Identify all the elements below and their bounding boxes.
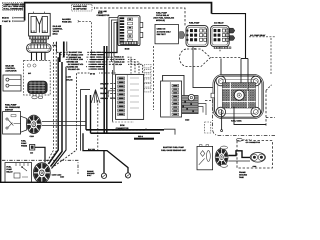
ECM connector B — [116, 74, 144, 119]
wire dashed vertical 153 — [153, 46, 155, 110]
label electric fuel pump sending unit — [161, 146, 187, 152]
svg-text:BLK/WHT: BLK/WHT — [100, 92, 109, 95]
fusible link stub N3 — [94, 7, 107, 13]
svg-text:C ANT B: C ANT B — [2, 20, 11, 23]
tank internal wires — [221, 110, 223, 130]
svg-text:SEE TEXT: SEE TEXT — [157, 33, 167, 36]
svg-text:RELAY: RELAY — [6, 170, 13, 173]
wire fan grommet — [91, 90, 100, 104]
label ECM CONNECTOR (B) — [112, 121, 134, 123]
label + dashed wire far right — [249, 34, 275, 75]
wire main power bus (top) — [25, 3, 212, 21]
svg-text:IN ALL HARNESSES: IN ALL HARNESSES — [3, 7, 23, 10]
scan border bottom — [0, 182, 122, 183]
scan border left — [0, 25, 1, 183]
label engine ground bolt — [87, 170, 95, 177]
svg-text:CONNECTOR: CONNECTOR — [97, 14, 110, 17]
dashed line lower center — [112, 127, 146, 130]
oval connector in dashed box — [250, 153, 265, 163]
wire pennant to pump boss — [220, 59, 222, 77]
wire lower thin — [228, 160, 250, 162]
label IDLE AIR CONTROL VALVE — [53, 25, 64, 36]
relay K1 — [186, 26, 208, 51]
svg-text:C38: C38 — [52, 44, 55, 47]
svg-text:FUS LINK: FUS LINK — [99, 10, 108, 13]
IAC valve connector hatch bar — [29, 36, 48, 43]
svg-text:10 AMP RATED: 10 AMP RATED — [73, 7, 87, 10]
svg-text:RED 2: RED 2 — [138, 135, 143, 138]
ground G1 — [101, 173, 106, 178]
svg-text:ECM: ECM — [120, 124, 125, 127]
wire thick steps — [63, 42, 65, 58]
thick jog to ECM pin — [104, 22, 117, 53]
fuel pump assembly (scalloped) — [211, 75, 264, 119]
small dashed rect left of tank — [205, 122, 211, 133]
wires IAC to actuator box — [32, 52, 46, 60]
actuator terminal box B2 — [3, 75, 21, 91]
svg-text:MODULE): MODULE) — [156, 19, 165, 22]
svg-text:C420: C420 — [185, 118, 189, 121]
thick bar segment — [134, 138, 154, 140]
svg-text:USED ON: USED ON — [157, 28, 166, 31]
wires from ECM-A left edge — [109, 18, 118, 122]
note box N2 (dashed, gauges fuse feed) — [72, 4, 93, 11]
wire rows cluster A (staircase) — [57, 42, 112, 70]
IAC actuator motor blob — [28, 81, 48, 94]
svg-text:PPL/WHT 470: PPL/WHT 470 — [68, 68, 80, 71]
svg-text:C210: C210 — [30, 135, 34, 138]
prime wire — [35, 147, 45, 162]
vertical harness bundle left-center — [47, 42, 57, 164]
wires from switch connector — [42, 121, 86, 123]
label fuel pump oil pressure switch — [5, 103, 21, 111]
svg-text:FUEL TANK: FUEL TANK — [231, 120, 242, 123]
grid connector block — [178, 94, 206, 121]
wire sender to C oval (thick) — [228, 151, 250, 158]
svg-text:SWITCH: SWITCH — [5, 108, 13, 111]
fuel tank dashed outline — [205, 85, 275, 136]
svg-text:C-100: C-100 — [66, 76, 71, 79]
svg-text:FUSE 10A: FUSE 10A — [62, 21, 72, 24]
svg-text:ELECTRIC FUEL PUMP: ELECTRIC FUEL PUMP — [163, 146, 185, 149]
relay round connector — [33, 163, 61, 183]
node stub ECM B — [2, 17, 25, 20]
svg-text:ACTUATOR: ACTUATOR — [5, 70, 17, 73]
wire thick bundle down to relay connector — [49, 57, 59, 164]
note box N1 (top-left dashed) — [2, 3, 25, 11]
nested dashed wires into ECM-B — [112, 57, 143, 73]
svg-text:C30: C30 — [30, 152, 33, 155]
wedge connectors right of K2 — [230, 28, 235, 33]
wire bus companion — [106, 46, 108, 133]
oil switch round connector — [27, 115, 41, 138]
svg-text:FUEL GAGE SENDING UNIT: FUEL GAGE SENDING UNIT — [161, 149, 187, 152]
label ECM CONNECTOR (top) — [97, 11, 110, 17]
fuel pump prime — [21, 140, 35, 155]
ECM connector A (top) — [118, 16, 143, 51]
label pressure ground tank — [239, 165, 256, 179]
dashed capsule loops — [180, 49, 241, 67]
IAC valve motor body — [29, 12, 51, 36]
svg-text:PRIME: PRIME — [21, 144, 28, 147]
wedge connector — [180, 32, 185, 39]
wedge to switch connector — [21, 116, 27, 132]
dashed pin stack — [144, 65, 151, 92]
svg-text:DT 88: DT 88 — [90, 73, 95, 76]
ground G2 — [125, 173, 130, 178]
svg-text:C/O CONNECTOR: C/O CONNECTOR — [246, 141, 261, 144]
gauges fuse stub — [62, 18, 92, 60]
svg-text:PPL 420: PPL 420 — [115, 63, 122, 66]
svg-text:C150: C150 — [60, 176, 64, 179]
relay K2 — [211, 26, 231, 49]
dashed feed line to relays — [96, 8, 185, 26]
wire corner to ground feed — [81, 90, 91, 151]
sender round connector — [215, 146, 228, 167]
wire rows cluster B — [53, 73, 116, 167]
wire S-route to grid connector — [163, 75, 184, 95]
connector bracket right edge — [108, 91, 115, 98]
svg-text:TANK: TANK — [239, 176, 245, 179]
oil pressure switch box — [3, 112, 21, 134]
svg-text:FUEL PUMP: FUEL PUMP — [189, 21, 200, 24]
svg-text:SPLICE: SPLICE — [66, 79, 73, 82]
wire label oval GRY — [237, 138, 243, 141]
connector box (pins right) — [161, 81, 182, 117]
label idle air control actuator — [5, 65, 17, 73]
svg-text:BLK 150: BLK 150 — [88, 148, 95, 151]
wire labels cluster A — [66, 51, 88, 71]
sending unit box — [197, 145, 213, 170]
wire relay K1 down to pump — [193, 47, 214, 88]
IAC 4-pin connector body — [27, 44, 56, 53]
node stub C ANT B — [2, 20, 25, 23]
svg-text:ECM B: ECM B — [2, 17, 9, 20]
dashed box bottom right — [237, 141, 272, 168]
ground wiring — [2, 160, 78, 174]
svg-text:(IAC): (IAC) — [53, 33, 58, 36]
svg-text:A/C RELAY: A/C RELAY — [214, 21, 224, 24]
label fuel pump relay module — [154, 12, 175, 22]
thick bus vertical center — [103, 46, 105, 133]
thick wire pair lower center — [86, 129, 164, 131]
fuel pump relay box — [5, 163, 32, 183]
actuator connector ovals — [32, 96, 43, 99]
svg-text:ECM: ECM — [125, 47, 130, 50]
pump feed wires — [241, 59, 248, 92]
dashed box idle air control actuator — [24, 60, 51, 95]
svg-text:49 STATE ONLY: 49 STATE ONLY — [157, 30, 172, 33]
note box (solid) — [155, 24, 178, 43]
wire dashed vertical to ground — [97, 100, 99, 151]
wire row end bars — [90, 52, 104, 69]
